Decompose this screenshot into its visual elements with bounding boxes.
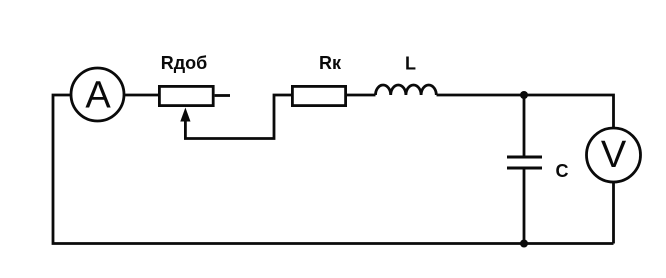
svg-text:L: L (405, 54, 416, 74)
svg-text:V: V (601, 134, 627, 176)
svg-text:A: A (85, 75, 111, 117)
svg-text:Rдоб: Rдоб (161, 53, 208, 73)
svg-text:Rк: Rк (319, 53, 342, 73)
svg-text:C: C (556, 161, 569, 181)
